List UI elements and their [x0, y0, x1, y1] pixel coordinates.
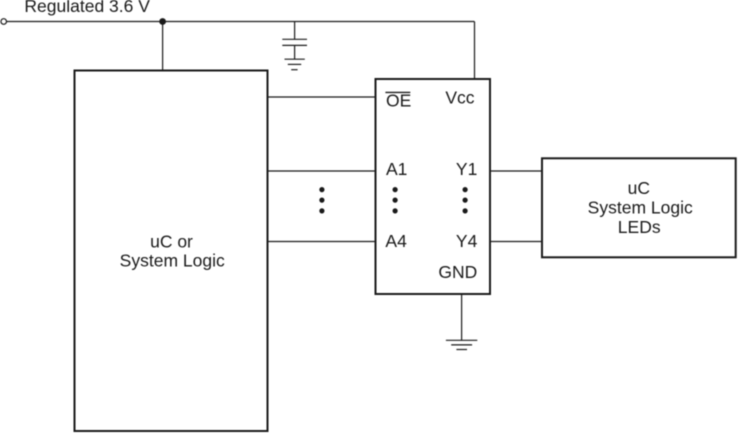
svg-text:A1: A1 — [386, 159, 407, 179]
svg-text:uC or: uC or — [150, 231, 193, 251]
svg-text:Regulated 3.6 V: Regulated 3.6 V — [24, 0, 150, 16]
svg-text:Vcc: Vcc — [445, 88, 474, 108]
svg-text:A4: A4 — [385, 231, 407, 251]
svg-text:Y4: Y4 — [456, 231, 478, 251]
svg-text:OE: OE — [386, 91, 411, 111]
svg-text:System Logic: System Logic — [588, 198, 693, 218]
svg-text:LEDs: LEDs — [618, 217, 661, 237]
svg-text:System Logic: System Logic — [120, 251, 225, 271]
svg-text:Y1: Y1 — [456, 159, 477, 179]
svg-text:GND: GND — [438, 262, 477, 282]
svg-text:uC: uC — [628, 178, 650, 198]
